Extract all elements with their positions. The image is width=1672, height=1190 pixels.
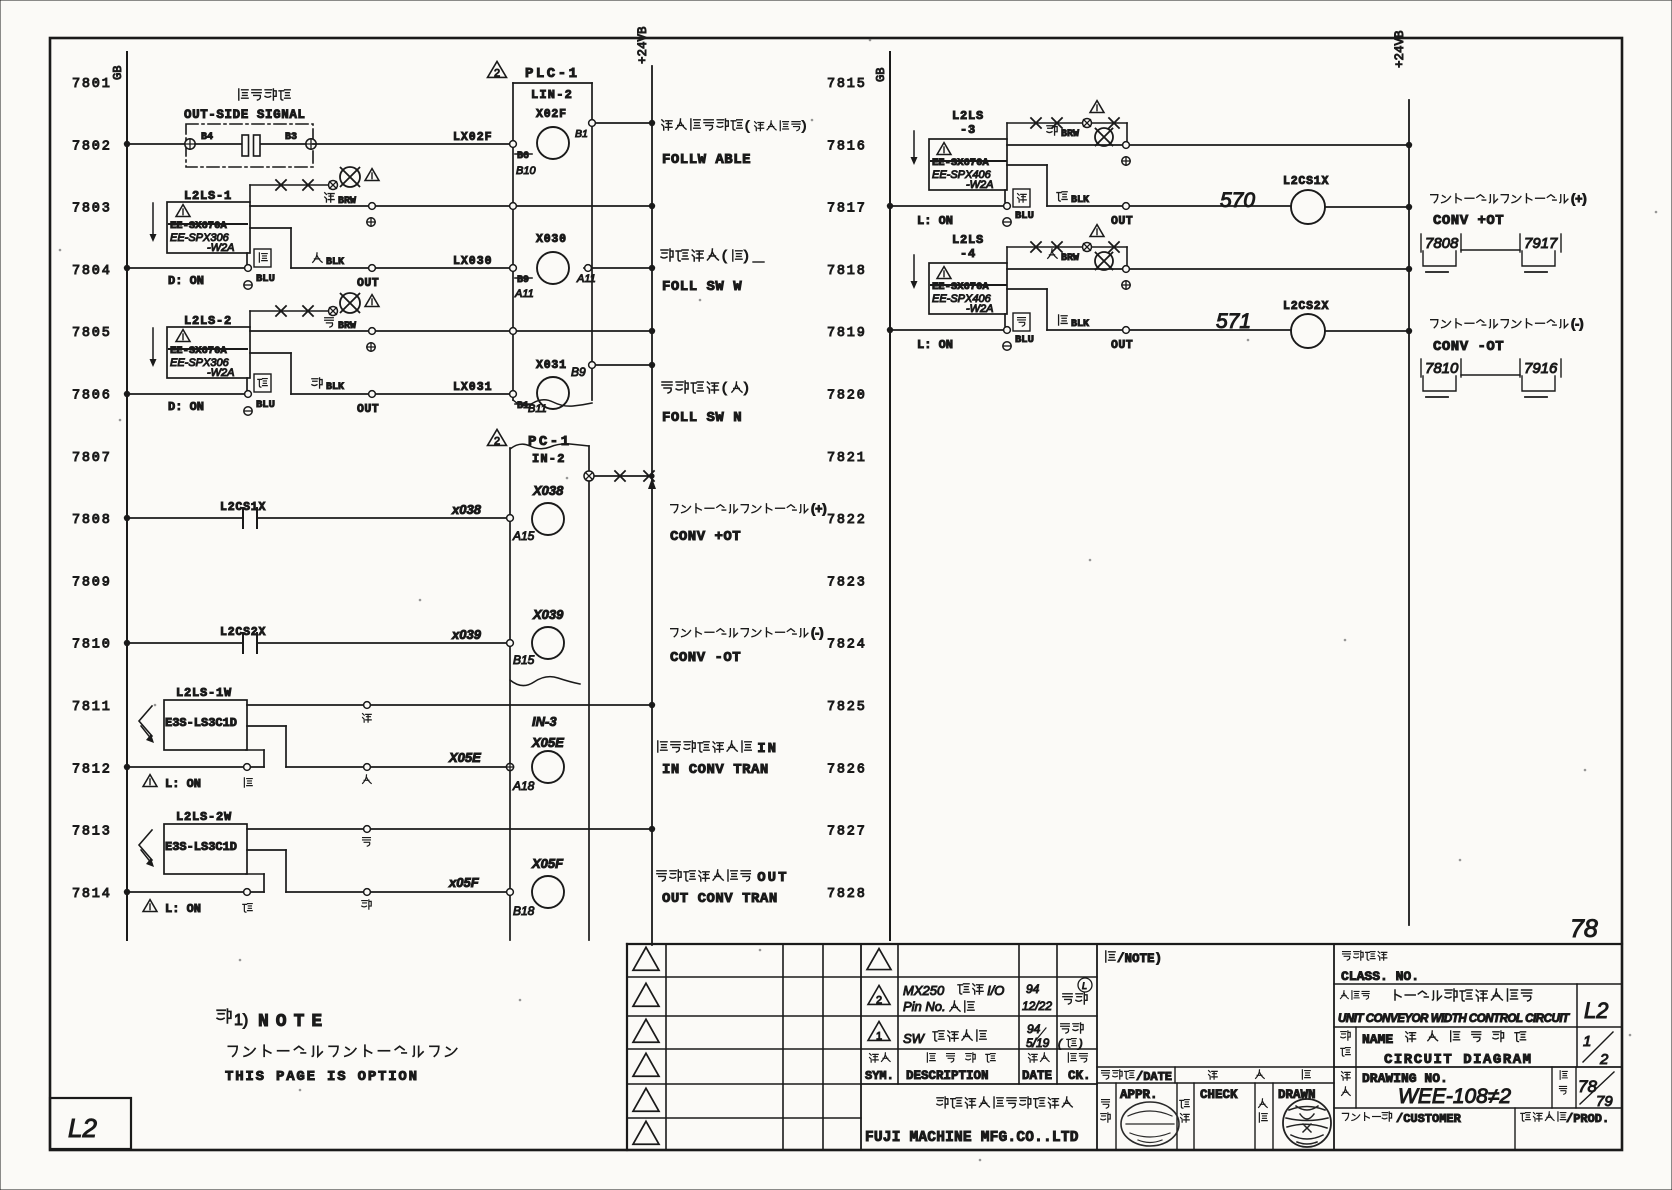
svg-text:BLU: BLU [1015, 334, 1034, 346]
lamp symbol at L2LS-1 [340, 167, 360, 187]
struck pin B6, pin B10 [515, 151, 536, 177]
blue lead box (ao) L2LS-4 [1013, 313, 1030, 331]
svg-text:(: ( [722, 379, 727, 395]
svg-text:-W2A: -W2A [207, 367, 235, 379]
down arrow at L2LS-1 [150, 203, 157, 242]
L2LS-1W white lead wire (rung 7812) [247, 726, 510, 770]
svg-text:): ) [744, 247, 749, 263]
svg-text:7818: 7818 [827, 264, 867, 279]
note body japanese line [228, 1045, 456, 1056]
rev1 description SW (jp) [903, 1030, 986, 1046]
terminal LX030 at PLC edge [510, 265, 517, 272]
wire rung 7813 red lead to rail [247, 826, 655, 833]
rev2 date 94 12/22 [1022, 982, 1052, 1013]
svg-text:(+): (+) [1571, 192, 1587, 206]
svg-text:B4: B4 [201, 132, 213, 143]
svg-text:7823: 7823 [827, 575, 867, 590]
svg-text:7805: 7805 [72, 326, 112, 341]
drawn stamp [1283, 1099, 1331, 1147]
svg-text:BLU: BLU [1015, 210, 1034, 222]
L2LS-3 brown crossing wire [1007, 118, 1127, 145]
7807 crossing wire from PC-1 to rail [584, 471, 656, 489]
svg-text:7826: 7826 [827, 762, 867, 777]
header DATE cell [1022, 1053, 1052, 1083]
svg-text:-W2A: -W2A [966, 303, 994, 315]
rev table verticals [898, 944, 1097, 1150]
warning triangle + L:ON label (1W) [143, 775, 201, 791]
PLC input coil X031 [536, 359, 569, 409]
svg-text:7801: 7801 [72, 77, 112, 92]
stamp row labels APPR CHECK DRAWN [1120, 1088, 1316, 1102]
model name row (jp) [1340, 989, 1531, 1001]
model EE-SPX406 (4) [932, 293, 994, 315]
svg-text:B6: B6 [517, 151, 529, 162]
outside-signal label (gaibu shingo) [239, 89, 290, 100]
svg-text:BLK: BLK [326, 382, 344, 393]
warning triangle in L2LS-1 [176, 205, 190, 217]
revision triangle 2 at PC-1 [488, 429, 507, 445]
svg-text:CIRCUIT DIAGRAM: CIRCUIT DIAGRAM [1384, 1052, 1533, 1068]
svg-text:7802: 7802 [72, 139, 112, 154]
svg-text:L: ON: L: ON [165, 777, 201, 791]
svg-text:L2LS-2W: L2LS-2W [176, 810, 232, 824]
svg-text:L2LS-1: L2LS-1 [184, 189, 232, 203]
page 78/79 handwritten [1578, 1072, 1614, 1110]
left rung number labels 7801-7814 [72, 77, 112, 902]
svg-text:7819: 7819 [827, 326, 867, 341]
minus terminal BLU L2LS-4 [1003, 334, 1034, 350]
label brown BRW [325, 193, 356, 207]
svg-text:IN-2: IN-2 [532, 452, 566, 466]
svg-text:L: ON: L: ON [917, 338, 953, 352]
svg-text:x05F: x05F [448, 875, 480, 890]
PLC input coil X038 [532, 503, 564, 535]
svg-text:94: 94 [1027, 1022, 1041, 1036]
plus terminal under rung (3) [1122, 157, 1130, 165]
svg-text:/DATE: /DATE [1136, 1070, 1172, 1084]
svg-text:X05F: X05F [531, 856, 564, 871]
svg-text:7808: 7808 [72, 513, 112, 528]
svg-text:L2: L2 [68, 1113, 97, 1143]
info panel verticals/horizontals [1334, 944, 1622, 1150]
struck pin B1, pin B11 [515, 401, 547, 415]
svg-text:7815: 7815 [827, 77, 867, 92]
beam arrow at L2LS-1W [139, 706, 154, 743]
svg-text:LIN-2: LIN-2 [531, 88, 573, 102]
svg-text:L2LS-2: L2LS-2 [184, 314, 232, 328]
svg-text:+24VB: +24VB [636, 26, 650, 64]
svg-text:X05E: X05E [531, 735, 564, 750]
svg-text:B9: B9 [517, 275, 529, 286]
svg-text:E3S-LS3C1D: E3S-LS3C1D [165, 716, 237, 730]
right +24VB rail [1393, 30, 1409, 925]
L2LS-4 black lead wire [1007, 289, 1291, 333]
svg-text:OUT: OUT [1111, 339, 1133, 352]
svg-text:OUT: OUT [357, 403, 379, 416]
svg-text:MX250: MX250 [903, 983, 945, 998]
PLC input coil X05F [532, 876, 564, 908]
svg-text:12/22: 12/22 [1022, 999, 1052, 1013]
svg-text:A18: A18 [512, 779, 535, 793]
red label (aka) 2 [363, 838, 371, 847]
svg-text:A11: A11 [576, 273, 596, 285]
rev1 date 94 5/19 [1026, 1022, 1050, 1050]
sensor L2LS-2 box [167, 327, 250, 378]
rev sym triangle 2 [868, 985, 890, 1004]
svg-text:(: ( [722, 247, 727, 263]
black label under terminal [244, 778, 252, 787]
relay coil L2CS2X [1283, 300, 1412, 348]
svg-text:FOLLW ABLE: FOLLW ABLE [662, 152, 751, 168]
plus terminal under 7803 [367, 218, 375, 226]
label brown BRW (2) [325, 318, 356, 332]
svg-text:B1: B1 [575, 128, 588, 140]
svg-text:WEE-108≠2: WEE-108≠2 [1398, 1085, 1511, 1108]
model EE-SPX406 (3) [932, 169, 994, 191]
svg-text:X031: X031 [536, 359, 567, 372]
svg-text:7803: 7803 [72, 202, 112, 217]
svg-text:+24VB: +24VB [1393, 30, 1407, 68]
plus terminal under rung (4) [1122, 281, 1130, 289]
terminal B4 [185, 132, 213, 149]
warning triangle + L:ON label (2W) [143, 900, 201, 916]
svg-text:L: ON: L: ON [165, 902, 201, 916]
svg-text:CLASS. NO.: CLASS. NO. [1341, 969, 1419, 984]
svg-text:BLK: BLK [1071, 319, 1089, 330]
svg-text:L2CS2X: L2CS2X [220, 626, 266, 639]
svg-text:BLU: BLU [256, 273, 275, 285]
L2LS-4 box bottom lead [1004, 314, 1006, 326]
date header labels [1102, 1070, 1311, 1084]
svg-text:E3S-LS3C1D: E3S-LS3C1D [165, 840, 237, 854]
svg-text:1): 1) [234, 1012, 248, 1029]
L2LS-3 box bottom lead [1004, 190, 1006, 202]
svg-text:1: 1 [1583, 1033, 1591, 1050]
svg-text:CONV -OT: CONV -OT [1433, 339, 1504, 355]
wire rung 7814 bus to black terminal [124, 874, 264, 895]
header CK cell [1068, 1053, 1091, 1083]
struck model EE-SX670A (4) [931, 281, 1006, 293]
name row label cell [1341, 1027, 1356, 1067]
minus terminal BLU L2LS-2 [244, 399, 275, 415]
NAME circuit diagram (jp) [1362, 1031, 1526, 1047]
minus terminal BLU L2LS-3 [1003, 210, 1034, 226]
svg-text:Pin No.: Pin No. [903, 999, 946, 1014]
svg-text:IN CONV TRAN: IN CONV TRAN [662, 762, 769, 778]
svg-text:7808: 7808 [1425, 235, 1459, 252]
svg-text:BLU: BLU [256, 399, 275, 411]
wire rung 7808 with contact L2CS1X [124, 508, 510, 528]
svg-text:): ) [744, 379, 749, 395]
down arrow at L2LS-4 [911, 255, 918, 289]
header DESCRIPTION cell [906, 1053, 995, 1083]
svg-text:THIS PAGE IS OPTION: THIS PAGE IS OPTION [225, 1069, 419, 1085]
svg-text:EE-SX670A: EE-SX670A [932, 157, 989, 169]
X02F right terminal wire to +24VB rail [589, 120, 656, 127]
sensor L2LS-1W box [164, 700, 247, 750]
svg-text:x039: x039 [451, 627, 482, 642]
dashed box outside signal [186, 124, 313, 167]
warning triangle over L2LS-4 wire [1090, 225, 1104, 237]
svg-text:L2LS: L2LS [952, 233, 984, 247]
relay coil L2CS1X [1283, 175, 1412, 224]
L2LS-2 box bottom lead [246, 378, 248, 390]
svg-text:7806: 7806 [72, 389, 112, 404]
svg-text:OUT-SIDE SIGNAL: OUT-SIDE SIGNAL [184, 108, 306, 122]
L2LS-3 black lead wire [1007, 165, 1291, 209]
svg-text:D: ON: D: ON [168, 274, 204, 288]
svg-text:7827: 7827 [827, 825, 867, 840]
svg-text:DATE: DATE [1022, 1069, 1052, 1083]
L2LS-2 brown lead crossing wire [250, 306, 338, 327]
model EE-SPX306 (2) [170, 357, 235, 379]
svg-text:B3: B3 [285, 132, 297, 143]
header SYM cell [865, 1053, 894, 1083]
svg-text:NOTE: NOTE [258, 1012, 329, 1032]
label black BLK (7806) [312, 378, 344, 393]
svg-text:A15: A15 [512, 529, 535, 543]
svg-text:L2LS: L2LS [952, 109, 984, 123]
terminal X038 at PC edge, pin A15 [507, 515, 535, 543]
terminal LX031 at PLC edge [510, 391, 517, 398]
left +24VB rail [636, 26, 652, 945]
svg-text:OUT: OUT [357, 277, 379, 290]
svg-text:EE-SX670A: EE-SX670A [170, 345, 227, 357]
date header row lines [1097, 1067, 1334, 1083]
PLC input coil X02F [536, 108, 569, 159]
PLC-1 unit box [513, 83, 592, 406]
description: follow confirm wide (jp) [661, 247, 764, 263]
description: conveyor overtravel - right (jp) [1431, 317, 1584, 331]
rev table row lines [861, 977, 1097, 1084]
svg-text:7807: 7807 [72, 451, 112, 466]
revision strip verticals [666, 944, 861, 1150]
struck pin B9, pin A11 [514, 275, 534, 300]
L2LS-2W white lead wire (rung 7814) [247, 850, 510, 895]
drawing no row label cell [1342, 1067, 1356, 1108]
svg-text:7816: 7816 [827, 139, 867, 154]
page 1/2 cell [1577, 1027, 1613, 1068]
svg-text:UNIT CONVEYOR WIDTH CONTROL CI: UNIT CONVEYOR WIDTH CONTROL CIRCUIT [1338, 1013, 1570, 1025]
svg-text:BRW: BRW [1061, 129, 1079, 140]
svg-text:EE-SX670A: EE-SX670A [932, 281, 989, 293]
svg-text:L2: L2 [1584, 998, 1608, 1023]
cross reference 7808 / 7917 [1421, 234, 1561, 272]
wire rung 7810 with contact L2CS2X [124, 633, 510, 653]
note heading (jp) NOTE [217, 1009, 329, 1032]
blue lead box (ao) L2LS-2 [254, 374, 271, 392]
svg-text:CHECK: CHECK [1200, 1088, 1238, 1102]
note box heading (jp)/NOTE) [1106, 951, 1162, 966]
svg-text:-3: -3 [960, 123, 976, 137]
prod row (jp)/PROD [1515, 1108, 1609, 1150]
description: follow confirm narrow (jp) [662, 379, 749, 395]
svg-text:x038: x038 [451, 502, 482, 517]
wire 7802 to PLC [313, 143, 510, 145]
svg-text:7820: 7820 [827, 389, 867, 404]
warning triangle in L2LS-3 [937, 143, 951, 155]
revision strip triangles [633, 947, 659, 1144]
svg-text:7814: 7814 [72, 887, 112, 902]
svg-text:(+): (+) [811, 502, 827, 516]
svg-text:CONV -OT: CONV -OT [670, 650, 741, 666]
wavy separator inside PC-1 [510, 677, 580, 686]
warning triangle in L2LS-4 [937, 267, 951, 279]
svg-text:/CUSTOMER: /CUSTOMER [1396, 1112, 1462, 1126]
wire rung 7818 to rail [1007, 266, 1412, 273]
svg-text:OUT: OUT [757, 870, 788, 886]
svg-text:7916: 7916 [1524, 360, 1558, 377]
sensor L2LS-4 box [929, 263, 1007, 314]
wire rung 7816 to rail [1007, 142, 1412, 149]
struck model EE-SX670A [169, 220, 247, 232]
label brown BRW (3) [1047, 125, 1079, 140]
terminal LX02F at PLC edge [510, 141, 517, 148]
svg-text:LX030: LX030 [453, 255, 493, 268]
svg-text:APPR.: APPR. [1120, 1088, 1158, 1102]
sensor L2LS-2W box [164, 824, 247, 874]
rev2 checker name (jp) with circle [1063, 978, 1092, 1004]
svg-text:2: 2 [494, 435, 500, 447]
terminal X05E at PC edge, pin A18 [506, 763, 534, 793]
svg-text:B9: B9 [571, 365, 586, 379]
svg-text:FOLL SW W: FOLL SW W [662, 279, 742, 295]
warning triangle over L2LS-3 wire [1090, 101, 1104, 113]
down arrow at L2LS-3 [911, 131, 918, 165]
blue lead box (ao) L2LS-3 [1013, 189, 1030, 207]
description: conveyor overtravel + (jp) [671, 502, 827, 516]
terminal B3 [285, 132, 316, 149]
svg-text:FUJI MACHINE MFG.CO..LTD: FUJI MACHINE MFG.CO..LTD [865, 1130, 1079, 1146]
svg-text:EE-SX670A: EE-SX670A [170, 220, 227, 232]
L2LS-1 brown lead crossing wire [250, 180, 338, 202]
blue lead box (ao) L2LS-1 [254, 249, 271, 267]
svg-text:NAME: NAME [1362, 1032, 1393, 1047]
svg-text:7813: 7813 [72, 825, 112, 840]
wire rung 7802 from GB bus [124, 141, 190, 147]
svg-text:L2CS1X: L2CS1X [1283, 175, 1329, 188]
svg-text:-W2A: -W2A [207, 242, 235, 254]
svg-text:(-): (-) [811, 626, 824, 640]
PLC input coil X030 [536, 233, 569, 284]
rev2 description MX250 I/O (handwritten) [903, 983, 1004, 1014]
customer row (jp)/CUSTOMER [1342, 1112, 1461, 1126]
svg-text:X039: X039 [532, 607, 564, 622]
svg-text:7817: 7817 [827, 202, 867, 217]
L2 page box [50, 1098, 131, 1149]
PLC input coil X05E [532, 751, 564, 783]
wire rung 7811 red lead to rail [247, 702, 655, 709]
rev sym triangle row1 [867, 949, 891, 970]
svg-text:7809: 7809 [72, 575, 112, 590]
svg-text:X030: X030 [536, 233, 567, 246]
X030 right terminal wire to rail [576, 265, 655, 285]
svg-text:570: 570 [1220, 189, 1255, 212]
svg-text:CONV +OT: CONV +OT [1433, 213, 1504, 229]
class no labels (jp + en) [1341, 951, 1419, 984]
svg-text:(: ( [745, 118, 750, 133]
wire rung 7803 (BRW) to rail [250, 203, 655, 210]
svg-text:7810: 7810 [1425, 360, 1459, 377]
svg-text:L2LS-1W: L2LS-1W [176, 686, 232, 700]
title block outer top line [627, 943, 1622, 945]
svg-text:B11: B11 [528, 403, 547, 415]
lamp symbol at L2LS-4 [1095, 252, 1113, 270]
label brown BRW (4) [1048, 249, 1079, 264]
L2LS-2 black lead wire (rung 7806) [250, 353, 510, 397]
svg-text:2: 2 [1599, 1051, 1609, 1068]
wire rung 7804 bus to blue terminal [124, 265, 252, 272]
L2LS-1 box bottom lead [246, 253, 248, 264]
model EE-SPX306 [170, 232, 235, 254]
svg-text:D: ON: D: ON [168, 400, 204, 414]
svg-text:I/O: I/O [987, 983, 1004, 998]
contact symbol in outside-signal box [195, 135, 306, 156]
down arrow at L2LS-2 [150, 328, 157, 367]
svg-text:FOLL SW N: FOLL SW N [662, 410, 742, 426]
svg-text:B10: B10 [516, 165, 536, 177]
svg-text:7822: 7822 [827, 513, 867, 528]
svg-text:-W2A: -W2A [966, 179, 994, 191]
svg-text:A11: A11 [514, 288, 534, 300]
svg-text:B18: B18 [513, 904, 535, 918]
description: conveyor overtravel + right (jp) [1431, 192, 1587, 206]
X031 right terminal wire to rail [571, 362, 655, 379]
company name fuji machine (jp) [937, 1097, 1072, 1108]
rev1 checker name (jp) [1058, 1023, 1083, 1050]
svg-text:LX02F: LX02F [453, 131, 493, 144]
lamp symbol at L2LS-2 [340, 293, 360, 313]
L2LS-1 black lead wire (rung 7804) [250, 228, 510, 271]
svg-text:(-): (-) [1571, 317, 1584, 331]
white label (shiro) [363, 775, 372, 784]
svg-text:2: 2 [876, 994, 882, 1006]
svg-text:7812: 7812 [72, 762, 112, 777]
svg-text:L2CS1X: L2CS1X [220, 501, 266, 514]
svg-text:PC-1: PC-1 [528, 434, 572, 450]
svg-text:GB: GB [111, 66, 125, 80]
svg-text:LX031: LX031 [453, 381, 493, 394]
svg-text:-4: -4 [960, 247, 976, 261]
svg-text:): ) [802, 118, 806, 133]
svg-text:L2CS2X: L2CS2X [1283, 300, 1329, 313]
minus terminal BLU L2LS-1 [244, 273, 275, 289]
svg-text:BLK: BLK [326, 257, 344, 268]
svg-text:2: 2 [494, 67, 500, 79]
svg-text:79: 79 [1596, 1093, 1613, 1110]
svg-text:/PROD.: /PROD. [1566, 1112, 1609, 1126]
vertical labels shonin/chosa/sakuzu (jp) [1101, 1099, 1267, 1122]
beam arrow at L2LS-2W [139, 830, 154, 867]
svg-text:CK.: CK. [1068, 1069, 1091, 1083]
label black BLK (3) [1057, 192, 1089, 206]
svg-text:78: 78 [1570, 915, 1598, 943]
svg-text:B15: B15 [513, 653, 535, 667]
wire rung 7806 bus to blue terminal [124, 391, 252, 398]
wire rung 7805 (BRW) to rail [250, 328, 655, 335]
lamp symbol at L2LS-3 [1095, 128, 1113, 146]
terminal X039 at PC edge, pin B15 [507, 640, 535, 667]
wire rung 7819 bus to blue terminal [887, 327, 1011, 334]
svg-text:7811: 7811 [72, 700, 112, 715]
cross reference 7810 / 7916 [1421, 359, 1561, 397]
svg-text:CONV +OT: CONV +OT [670, 529, 741, 545]
svg-text:GB: GB [874, 68, 888, 82]
svg-text:1: 1 [876, 1030, 882, 1042]
white label (shiro) 2 [362, 900, 371, 909]
description: board transfer confirm IN (jp) [658, 741, 778, 757]
black label under terminal 2 [243, 904, 252, 913]
